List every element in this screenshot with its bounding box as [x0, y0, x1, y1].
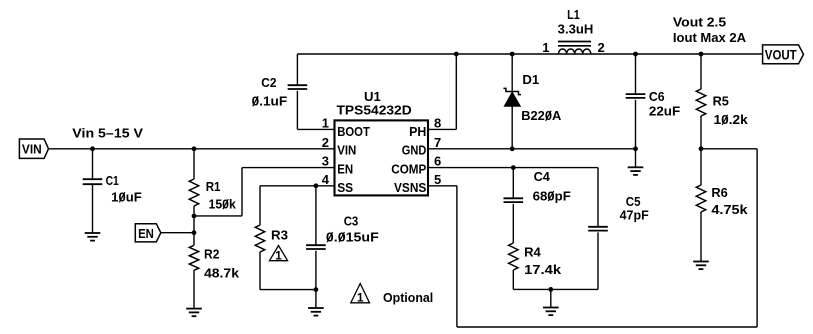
svg-text:4: 4: [322, 172, 330, 187]
svg-text:R1: R1: [206, 179, 221, 194]
svg-text:R6: R6: [711, 185, 727, 200]
svg-text:R2: R2: [204, 247, 219, 262]
svg-text:C3: C3: [344, 214, 359, 229]
svg-text:Vin 5–15 V: Vin 5–15 V: [72, 126, 143, 141]
svg-text:4.75k: 4.75k: [711, 202, 748, 217]
svg-text:1: 1: [357, 291, 364, 305]
svg-text:1: 1: [275, 249, 282, 263]
svg-text:C2: C2: [261, 75, 276, 90]
svg-text:C5: C5: [626, 194, 641, 209]
svg-text:EN: EN: [337, 161, 353, 176]
svg-text:D1: D1: [522, 72, 539, 87]
svg-text:47pF: 47pF: [620, 208, 649, 223]
svg-text:R4: R4: [524, 245, 541, 260]
svg-text:VOUT: VOUT: [765, 46, 797, 62]
svg-text:3.3uH: 3.3uH: [558, 22, 594, 37]
svg-text:10uF: 10uF: [111, 190, 142, 205]
svg-text:C6: C6: [649, 89, 665, 104]
svg-text:Vout 2.5: Vout 2.5: [673, 15, 726, 30]
svg-text:R3: R3: [271, 227, 288, 242]
svg-text:PH: PH: [409, 124, 426, 139]
svg-text:8: 8: [434, 115, 441, 130]
svg-text:Iout Max 2A: Iout Max 2A: [673, 30, 747, 45]
svg-text:7: 7: [434, 135, 441, 150]
svg-text:EN: EN: [138, 226, 154, 241]
svg-text:48.7k: 48.7k: [204, 265, 240, 280]
svg-text:0.1uF: 0.1uF: [252, 94, 288, 109]
svg-text:150k: 150k: [209, 196, 237, 211]
svg-text:5: 5: [434, 172, 441, 187]
svg-text:17.4k: 17.4k: [524, 262, 562, 277]
svg-text:GND: GND: [402, 143, 427, 158]
svg-text:C1: C1: [106, 173, 119, 188]
svg-text:BOOT: BOOT: [337, 124, 370, 139]
svg-text:C4: C4: [534, 169, 551, 184]
svg-text:2: 2: [322, 135, 329, 150]
svg-text:22uF: 22uF: [649, 104, 680, 119]
svg-text:1: 1: [542, 40, 549, 55]
svg-text:2: 2: [598, 40, 605, 55]
svg-text:TPS54232D: TPS54232D: [337, 103, 412, 118]
svg-text:VSNS: VSNS: [394, 180, 427, 195]
svg-text:R5: R5: [713, 93, 729, 108]
svg-text:3: 3: [322, 154, 329, 169]
svg-text:VIN: VIN: [22, 142, 42, 157]
svg-text:Optional: Optional: [383, 290, 433, 305]
svg-text:L1: L1: [567, 7, 580, 22]
svg-text:SS: SS: [337, 180, 353, 195]
svg-text:1: 1: [322, 115, 329, 130]
svg-text:B220A: B220A: [521, 108, 562, 123]
svg-text:0.015uF: 0.015uF: [326, 229, 379, 244]
svg-text:10.2k: 10.2k: [714, 112, 749, 127]
svg-text:VIN: VIN: [337, 143, 356, 158]
svg-text:COMP: COMP: [391, 161, 426, 176]
svg-text:6: 6: [434, 154, 441, 169]
